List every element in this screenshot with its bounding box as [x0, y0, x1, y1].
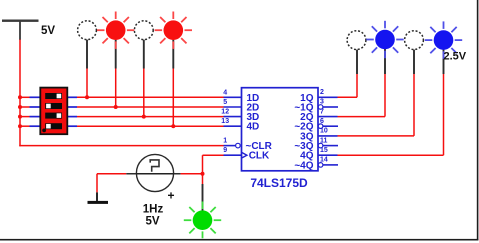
- svg-text:1Hz: 1Hz: [143, 204, 164, 216]
- op chip U1 74LS175D box: [242, 88, 319, 171]
- pin 3 stub (~1Q): [323, 106, 338, 108]
- svg-text:3: 3: [320, 99, 324, 106]
- wire row2 DIP to chip 2D: [77, 106, 224, 108]
- svg-text:4D: 4D: [247, 122, 260, 133]
- svg-text:4: 4: [223, 89, 227, 96]
- node junction clock output: [201, 172, 205, 176]
- node junction row2 lamp X2: [114, 105, 118, 109]
- node junction row1 lamp X1: [85, 95, 89, 99]
- wire row3 DIP to chip 3D: [77, 116, 224, 118]
- svg-text:1: 1: [223, 138, 227, 145]
- wire clock to CLK pin: [203, 155, 224, 174]
- pin 6 stub (~2Q): [323, 125, 338, 127]
- svg-text:6: 6: [320, 118, 324, 125]
- border bottom: [0, 239, 478, 241]
- node junction bus row4: [18, 124, 22, 128]
- svg-text:12: 12: [221, 109, 229, 116]
- wire row3 left: [20, 116, 30, 118]
- lamp X4 (on, red): [155, 12, 192, 49]
- wire 4Q to lamp X8: [338, 50, 444, 156]
- pin 6 bubble: [318, 124, 323, 129]
- svg-text:13: 13: [221, 118, 229, 125]
- switch S1 DIP-4: [30, 88, 78, 135]
- wire 1Q to lamp X5: [338, 50, 358, 98]
- wire row1 left stub to bus: [20, 96, 30, 98]
- lamp X7 (off, white): [405, 31, 424, 50]
- pin 11 bubble: [318, 143, 323, 148]
- pin 14 bubble: [318, 163, 323, 168]
- wire 2Q to lamp X6: [338, 49, 386, 117]
- svg-text:15: 15: [320, 147, 328, 154]
- pin 1 bubble: [236, 143, 241, 148]
- svg-text:7: 7: [320, 108, 324, 115]
- pin 13 stub (4D): [224, 125, 242, 127]
- svg-text:+: +: [168, 188, 175, 202]
- node junction bus row1: [18, 95, 22, 99]
- pin 4 stub (1D): [224, 96, 242, 98]
- lamp X6 (on, blue): [366, 21, 403, 58]
- svg-text:5V: 5V: [41, 25, 55, 37]
- wire 5V vertical bus: [19, 40, 21, 147]
- CLK edge triangle: [242, 153, 247, 158]
- pin 2 stub (1Q): [318, 96, 338, 98]
- ground: [88, 174, 109, 204]
- node junction row4 lamp X4: [171, 124, 175, 128]
- svg-text:10: 10: [320, 128, 328, 135]
- pin 3 bubble: [318, 105, 323, 110]
- node junction bus row2: [18, 105, 22, 109]
- wire row4 left: [20, 125, 30, 127]
- lamp X9 (on, green): [184, 202, 221, 239]
- lamp X5 (off, white): [347, 31, 366, 50]
- pin 11 stub (~3Q): [323, 145, 338, 147]
- lamp X2 lead: [115, 40, 117, 107]
- pin 7 stub (2Q): [318, 116, 338, 118]
- wire ~CLR horizontal: [19, 145, 223, 147]
- lamp X9 lead: [202, 174, 204, 211]
- svg-text:CLK: CLK: [249, 151, 270, 162]
- clock source V1: [97, 154, 203, 191]
- svg-text:74LS175D: 74LS175D: [250, 176, 308, 190]
- pin 9 stub (CLK): [224, 154, 242, 156]
- svg-text:2.5V: 2.5V: [444, 51, 467, 63]
- pin 5 stub (2D): [224, 106, 242, 108]
- svg-text:11: 11: [320, 137, 328, 144]
- pin 10 stub (3Q): [318, 135, 338, 137]
- lamp X3 lead: [143, 40, 145, 117]
- svg-text:~4Q: ~4Q: [294, 160, 313, 171]
- lamp X1 (off, white): [78, 21, 97, 40]
- lamp X4 lead: [172, 40, 174, 127]
- power VCC 5V bar: [2, 20, 39, 40]
- svg-text:2: 2: [320, 89, 324, 96]
- pin 15 stub (4Q): [318, 154, 338, 156]
- svg-text:5: 5: [223, 99, 227, 106]
- svg-text:14: 14: [320, 157, 328, 164]
- lamp X3 (off, white): [134, 21, 153, 40]
- node junction row3 lamp X3: [142, 115, 146, 119]
- pin 1 stub (~CLR): [224, 145, 236, 147]
- wire row1 DIP to chip 1D: [77, 96, 224, 98]
- svg-text:5V: 5V: [145, 216, 159, 228]
- lamp X8 (on, blue): [425, 21, 462, 58]
- wire 3Q to lamp X7: [338, 50, 415, 136]
- pin 14 stub (~4Q): [323, 164, 338, 166]
- wire row2 left: [20, 106, 30, 108]
- node junction bus row3: [18, 115, 22, 119]
- svg-text:9: 9: [223, 147, 227, 154]
- lamp X1 lead: [86, 40, 88, 98]
- border right: [477, 0, 479, 240]
- lamp X2 (on, red): [97, 12, 134, 49]
- pin 12 stub (3D): [224, 116, 242, 118]
- wire row4 DIP to chip 4D: [77, 125, 224, 127]
